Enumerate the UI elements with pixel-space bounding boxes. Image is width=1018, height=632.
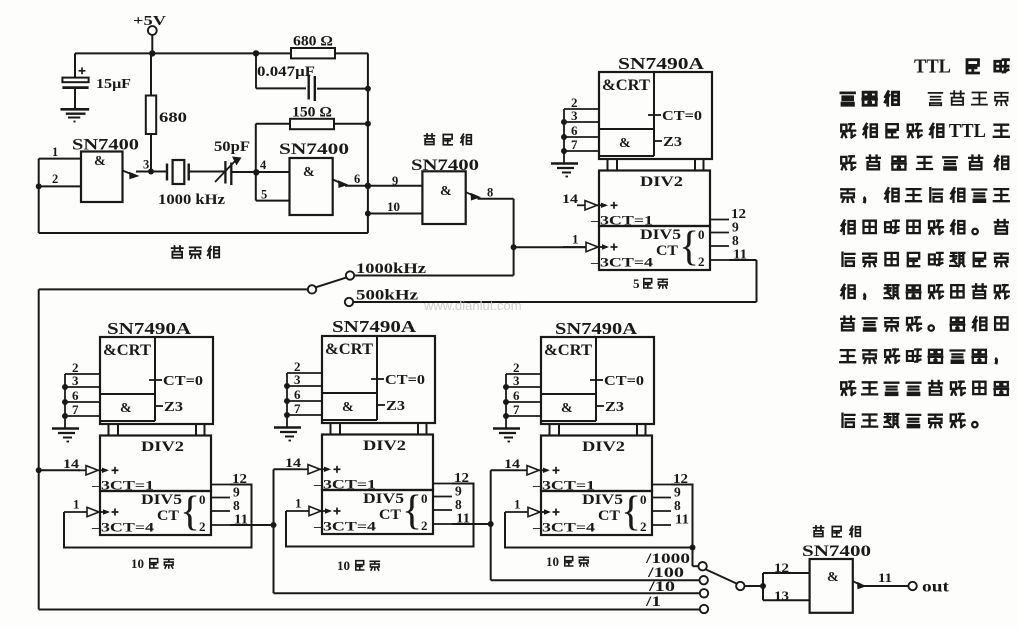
- terminal 1000kHz: [346, 261, 514, 280]
- svg-text:5: 5: [261, 188, 267, 202]
- svg-text:out: out: [922, 579, 950, 596]
- terminal out: [908, 579, 949, 596]
- output switch arm: [706, 570, 745, 591]
- wire input to U4 pin 14: [36, 467, 80, 473]
- crystal 1000 kHz: [151, 160, 225, 184]
- buffer gate U2 SN7400: [411, 157, 479, 224]
- label divide-by-5 (Chinese): [633, 276, 667, 291]
- wire crystal to pin4: [231, 169, 289, 175]
- wire pin 13: [763, 588, 810, 603]
- wire /100 row: [491, 579, 700, 581]
- resistor 680 ohm (top): [291, 34, 368, 59]
- pin 2: [36, 172, 81, 189]
- gate U1A output pin 3: [123, 158, 155, 180]
- gate U1B SN7400: [279, 141, 349, 215]
- svg-text:0.047μF: 0.047μF: [257, 64, 315, 80]
- wire U6 tap to /1000: [690, 545, 699, 567]
- buffer gate U7 SN7400: [802, 543, 871, 613]
- ground (15uF): [61, 109, 90, 121]
- svg-text:10: 10: [337, 558, 350, 573]
- svg-text:TTL: TTL: [914, 55, 951, 77]
- svg-text:SN7490A: SN7490A: [332, 317, 416, 336]
- svg-text:SN7490A: SN7490A: [555, 319, 637, 338]
- wire oscillator feedback: [39, 232, 368, 234]
- terminal /1: [645, 594, 709, 613]
- label output buffer (Chinese): [814, 526, 824, 537]
- svg-text:11: 11: [878, 570, 892, 585]
- wire pin 10: [365, 200, 423, 217]
- trimmer capacitor 50pF: [214, 139, 250, 185]
- svg-text:1: 1: [52, 145, 58, 159]
- wire gate1 input vertical: [38, 159, 40, 233]
- IC U5 SN7490A (divide by 10, second): [274, 317, 474, 547]
- svg-text:50pF: 50pF: [214, 139, 250, 155]
- IC U6 SN7490A (divide by 10, third): [493, 319, 693, 548]
- svg-text:10: 10: [546, 554, 559, 569]
- svg-text:SN7400: SN7400: [802, 543, 871, 560]
- wire /10 row: [274, 592, 701, 594]
- label buffer (Chinese): [425, 134, 435, 145]
- svg-text:SN7400: SN7400: [279, 141, 349, 158]
- IC U4 SN7490A (divide by 10, first): [52, 319, 252, 548]
- buffer output pin 11: [853, 570, 909, 589]
- wire gate2 output node vertical: [367, 53, 369, 233]
- IC U3 SN7490A (divide by 5): [551, 54, 747, 270]
- svg-text:1000 kHz: 1000 kHz: [158, 192, 226, 208]
- text paragraph (Chinese description): [840, 55, 1009, 427]
- terminal 500kHz: [345, 288, 757, 307]
- wire /1 row: [39, 289, 700, 609]
- switch arm: [308, 278, 346, 294]
- svg-text:15μF: 15μF: [96, 77, 131, 92]
- label divide-by-10 third (Chinese): [546, 554, 588, 569]
- terminal /10: [648, 579, 709, 598]
- pin 1: [39, 145, 81, 159]
- svg-text:&: &: [827, 570, 839, 585]
- wire buffer out to divider: [511, 199, 586, 276]
- buffer output pin 8: [466, 186, 514, 201]
- wire selector to divider chain: [39, 288, 308, 290]
- terminal /1000: [645, 551, 707, 570]
- svg-text:&: &: [440, 184, 452, 199]
- svg-text:2: 2: [52, 172, 58, 186]
- capacitor 0.047uF: [256, 53, 371, 101]
- power terminal +5V: [133, 14, 166, 53]
- wire 500kHz tap from pin 11: [729, 260, 757, 302]
- terminal /100: [647, 565, 708, 584]
- svg-text:6: 6: [354, 172, 360, 186]
- wire top supply rail: [75, 50, 291, 56]
- svg-text:8: 8: [487, 186, 493, 200]
- wire U4 pin 11 output: [230, 469, 300, 593]
- svg-text:SN7490A: SN7490A: [618, 54, 704, 73]
- svg-text:www.dianlut.com: www.dianlut.com: [423, 298, 522, 313]
- svg-text:&: &: [94, 154, 106, 169]
- wire pin 12: [763, 560, 810, 575]
- svg-text:/10: /10: [648, 579, 675, 595]
- label divide-by-10 first (Chinese): [131, 556, 173, 571]
- svg-text:4: 4: [260, 158, 267, 172]
- gate U1A SN7400: [72, 137, 139, 203]
- wire switch to buffer: [745, 573, 767, 600]
- svg-text:SN7490A: SN7490A: [107, 319, 191, 338]
- svg-text:TTL: TTL: [949, 120, 986, 142]
- gate U1B output pin 6: [333, 172, 371, 189]
- resistor 150 ohm: [256, 105, 371, 172]
- resistor 680 (vertical): [146, 53, 187, 171]
- svg-text:10: 10: [387, 200, 400, 214]
- capacitor 15uF: [62, 53, 131, 108]
- pin 5: [256, 172, 290, 202]
- label oscillator (Chinese): [172, 246, 183, 258]
- svg-text:5: 5: [633, 276, 640, 291]
- svg-text:3: 3: [143, 158, 149, 172]
- svg-text:/1: /1: [645, 594, 661, 610]
- svg-text:10: 10: [131, 556, 144, 571]
- svg-text:680: 680: [159, 110, 187, 126]
- label divide-by-10 second (Chinese): [337, 558, 379, 573]
- svg-text:&: &: [303, 165, 315, 180]
- wire U5 pin 11 output: [452, 470, 519, 580]
- wire pin 9: [368, 174, 423, 188]
